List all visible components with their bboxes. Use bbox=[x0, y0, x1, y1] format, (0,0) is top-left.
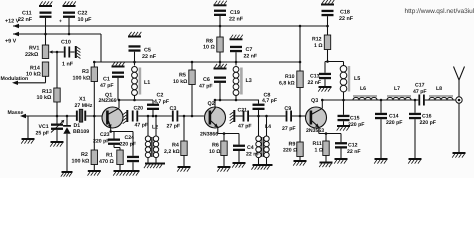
svg-text:C13: C13 bbox=[310, 74, 320, 80]
svg-text:10 kΩ: 10 kΩ bbox=[37, 95, 52, 101]
svg-text:220 pF: 220 pF bbox=[120, 142, 136, 148]
svg-text:C10: C10 bbox=[61, 40, 71, 46]
svg-text:C1: C1 bbox=[103, 77, 110, 83]
svg-text:C18: C18 bbox=[340, 10, 350, 16]
svg-text:1 nF: 1 nF bbox=[62, 62, 74, 68]
svg-text:47 pF: 47 pF bbox=[100, 83, 114, 89]
svg-text:2N2369: 2N2369 bbox=[99, 98, 117, 104]
svg-text:C6: C6 bbox=[203, 77, 210, 83]
svg-text:C11: C11 bbox=[22, 11, 32, 17]
svg-text:C3: C3 bbox=[170, 106, 177, 112]
svg-text:100 kΩ: 100 kΩ bbox=[72, 159, 90, 165]
svg-text:470 Ω: 470 Ω bbox=[99, 159, 114, 165]
svg-text:VC1: VC1 bbox=[39, 124, 49, 130]
svg-text:R2: R2 bbox=[81, 152, 88, 158]
svg-text:C21: C21 bbox=[238, 107, 248, 113]
svg-text:C15: C15 bbox=[350, 116, 360, 122]
svg-text:X1: X1 bbox=[79, 97, 86, 103]
svg-text:L5: L5 bbox=[354, 76, 360, 82]
svg-text:R8: R8 bbox=[206, 38, 213, 44]
svg-text:22 nF: 22 nF bbox=[308, 80, 322, 86]
svg-text:R4: R4 bbox=[172, 143, 179, 149]
svg-text:L7: L7 bbox=[394, 86, 400, 92]
svg-text:C23: C23 bbox=[100, 132, 110, 138]
svg-text:220 pF: 220 pF bbox=[420, 120, 436, 126]
svg-text:10 µF: 10 µF bbox=[78, 17, 93, 23]
svg-text:2,2 kΩ: 2,2 kΩ bbox=[164, 149, 180, 155]
svg-text:L3: L3 bbox=[246, 78, 252, 84]
svg-text:47 pF: 47 pF bbox=[238, 124, 252, 130]
svg-text:22 nF: 22 nF bbox=[18, 17, 33, 23]
svg-text:R1: R1 bbox=[106, 153, 113, 159]
svg-text:25 pF: 25 pF bbox=[36, 131, 50, 137]
svg-text:Q3: Q3 bbox=[311, 98, 318, 104]
svg-text:47 pF: 47 pF bbox=[199, 84, 213, 90]
svg-text:C7: C7 bbox=[246, 47, 253, 53]
svg-text:C20: C20 bbox=[134, 106, 144, 112]
svg-text:http://www.qsl.net/va3iul: http://www.qsl.net/va3iul bbox=[405, 8, 474, 15]
svg-text:C9: C9 bbox=[284, 106, 291, 112]
svg-text:C5: C5 bbox=[144, 48, 151, 54]
svg-text:220 Ω: 220 Ω bbox=[283, 148, 297, 154]
svg-text:22 nF: 22 nF bbox=[347, 149, 361, 155]
svg-text:2N3866: 2N3866 bbox=[200, 131, 218, 137]
svg-text:RV1: RV1 bbox=[29, 46, 39, 52]
svg-text:220 pF: 220 pF bbox=[386, 120, 402, 126]
svg-text:22 nF: 22 nF bbox=[229, 17, 244, 23]
svg-text:C16: C16 bbox=[422, 114, 432, 120]
svg-text:D1: D1 bbox=[74, 123, 81, 129]
svg-text:R12: R12 bbox=[312, 37, 322, 43]
svg-text:1 Ω: 1 Ω bbox=[315, 148, 324, 154]
svg-text:10 Ω: 10 Ω bbox=[209, 149, 220, 155]
svg-text:C19: C19 bbox=[230, 10, 240, 16]
svg-text:R3: R3 bbox=[82, 69, 89, 75]
svg-text:R6: R6 bbox=[212, 143, 219, 149]
svg-text:R10: R10 bbox=[285, 74, 295, 80]
svg-text:R9: R9 bbox=[289, 141, 296, 147]
svg-text:Q2: Q2 bbox=[208, 101, 215, 107]
svg-text:100 kΩ: 100 kΩ bbox=[73, 76, 91, 82]
svg-text:C17: C17 bbox=[415, 83, 425, 89]
svg-text:C22: C22 bbox=[78, 11, 88, 17]
svg-text:+9 V: +9 V bbox=[5, 39, 17, 45]
svg-text:220 pF: 220 pF bbox=[93, 139, 109, 145]
svg-text:10 kΩ: 10 kΩ bbox=[173, 79, 187, 85]
svg-text:L1: L1 bbox=[144, 80, 150, 86]
svg-text:C14: C14 bbox=[389, 114, 399, 120]
svg-text:22 nF: 22 nF bbox=[142, 54, 157, 60]
svg-text:Masse: Masse bbox=[8, 110, 24, 116]
svg-text:L4: L4 bbox=[265, 124, 271, 130]
svg-text:27 pF: 27 pF bbox=[282, 126, 296, 132]
svg-text:C12: C12 bbox=[348, 143, 358, 149]
svg-text:1 Ω: 1 Ω bbox=[314, 43, 323, 49]
svg-text:220 pF: 220 pF bbox=[348, 122, 364, 128]
svg-text:22 nF: 22 nF bbox=[339, 16, 354, 22]
svg-text:22kΩ: 22kΩ bbox=[25, 52, 39, 58]
svg-text:C2: C2 bbox=[157, 93, 164, 99]
svg-text:27 pF: 27 pF bbox=[167, 124, 181, 130]
svg-text:R11: R11 bbox=[313, 141, 322, 147]
svg-text:BB109: BB109 bbox=[73, 129, 89, 135]
svg-text:10 kΩ: 10 kΩ bbox=[26, 72, 41, 78]
svg-text:C24: C24 bbox=[125, 135, 135, 141]
svg-text:4,7 pF: 4,7 pF bbox=[154, 99, 169, 105]
svg-text:C4: C4 bbox=[247, 145, 254, 151]
svg-text:22 nF: 22 nF bbox=[244, 54, 258, 60]
svg-text:L8: L8 bbox=[436, 86, 442, 92]
svg-text:10 Ω: 10 Ω bbox=[203, 45, 215, 51]
svg-text:6,8 kΩ: 6,8 kΩ bbox=[279, 81, 295, 87]
svg-text:+: + bbox=[59, 19, 62, 25]
svg-text:R5: R5 bbox=[179, 73, 186, 79]
svg-text:L6: L6 bbox=[360, 86, 366, 92]
svg-text:47 pF: 47 pF bbox=[135, 123, 149, 129]
svg-text:L2: L2 bbox=[152, 125, 158, 131]
svg-text:Modulation: Modulation bbox=[1, 76, 29, 82]
svg-text:47 pF: 47 pF bbox=[413, 89, 427, 95]
svg-text:4,7 pF: 4,7 pF bbox=[262, 98, 277, 104]
svg-text:27 MHz: 27 MHz bbox=[75, 103, 93, 109]
